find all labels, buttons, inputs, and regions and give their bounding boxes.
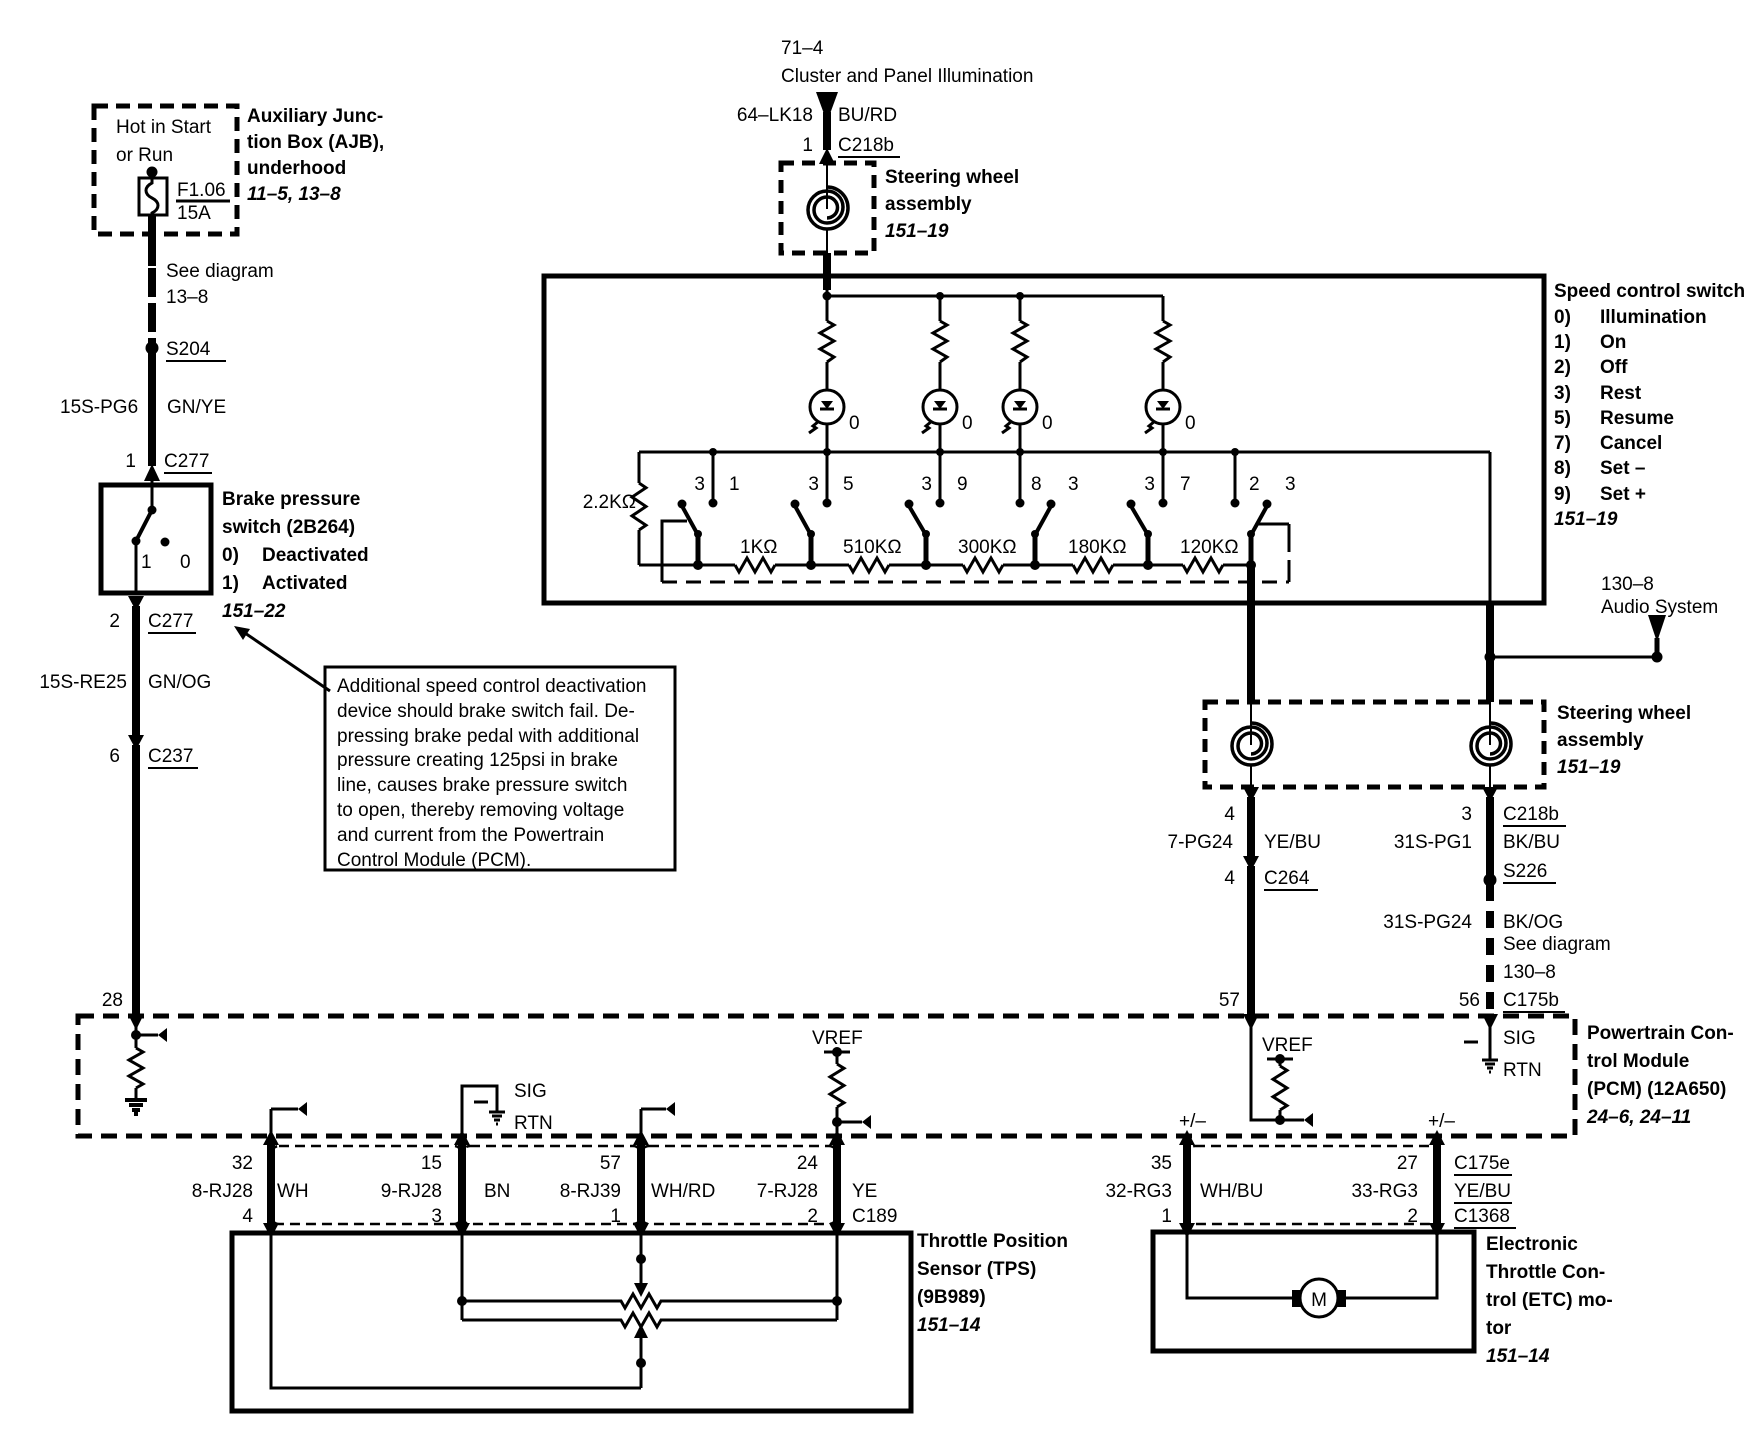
label 3 1 [694, 474, 739, 495]
svg-text:300KΩ: 300KΩ [958, 537, 1017, 558]
svg-text:3: 3 [1461, 804, 1472, 825]
wire switch common rail top [639, 451, 1490, 454]
svg-text:1: 1 [610, 1206, 621, 1227]
wire through clockspring left [1250, 702, 1252, 745]
node contact 0 [161, 538, 170, 547]
switch SW1 On stub pin 1 [709, 452, 718, 508]
pin bar 57/1 [633, 1130, 649, 1238]
wire 64-LK18 BU/RD [823, 112, 831, 150]
svg-text:SIG: SIG [514, 1081, 547, 1102]
switch SW6 Off stub pin 2 [1231, 452, 1240, 508]
svg-text:56: 56 [1459, 990, 1480, 1011]
label YE C189 [852, 1181, 897, 1227]
svg-text:Resume: Resume [1600, 408, 1674, 429]
svg-text:Control Module (PCM).: Control Module (PCM). [337, 850, 531, 871]
label Auxiliary Junction Box (AJB) underhood 11-5, 13-8 [247, 106, 384, 205]
wire TPS wiper lower [634, 1324, 648, 1388]
svg-text:BK/OG: BK/OG [1503, 912, 1563, 933]
svg-text:Speed control switch: Speed control switch [1554, 281, 1745, 302]
svg-text:S226: S226 [1503, 861, 1547, 882]
connector arrow C264 pin 4 [1243, 856, 1259, 871]
svg-text:Cluster and Panel Illumination: Cluster and Panel Illumination [781, 66, 1033, 87]
svg-text:pressing brake pedal with addi: pressing brake pedal with additional [337, 726, 639, 747]
svg-text:1: 1 [1161, 1206, 1172, 1227]
svg-text:3: 3 [1285, 474, 1296, 495]
svg-text:2): 2) [1554, 357, 1571, 378]
svg-text:WH/BU: WH/BU [1200, 1181, 1263, 1202]
svg-text:M: M [1311, 1290, 1327, 1311]
svg-text:device should brake switch fai: device should brake switch fail. De- [337, 701, 635, 722]
label Throttle Position Sensor (TPS) (9B989) 151-14 [917, 1231, 1068, 1336]
label positions 1 0 [141, 552, 191, 573]
svg-text:3: 3 [921, 474, 932, 495]
svg-text:Deactivated: Deactivated [262, 545, 369, 566]
svg-text:C264: C264 [1264, 868, 1310, 889]
ground SIG RTN right [1482, 1060, 1498, 1072]
svg-text:Activated: Activated [262, 573, 348, 594]
label Speed control switch legend [1554, 281, 1745, 530]
svg-text:13–8: 13–8 [166, 287, 208, 308]
connector arrow PCM pin 57 [1243, 1014, 1259, 1030]
label Steering wheel assembly 151-19 [885, 167, 1019, 242]
splice S204 [146, 342, 159, 355]
svg-text:assembly: assembly [1557, 730, 1644, 751]
svg-text:+/–: +/– [1179, 1111, 1206, 1132]
svg-text:3: 3 [808, 474, 819, 495]
svg-text:0: 0 [1042, 413, 1053, 434]
resistor TPS track upper [462, 1294, 837, 1308]
svg-text:71–4: 71–4 [781, 38, 824, 59]
svg-text:C1368: C1368 [1454, 1206, 1510, 1227]
resistor 300K [963, 558, 1003, 572]
wire lamp supply rail [827, 295, 1163, 298]
clockspring coil left [1232, 723, 1272, 765]
pin bar 24/2 [829, 1130, 845, 1238]
svg-text:2: 2 [1249, 474, 1260, 495]
switch SW5 Cancel stub pin 7 [1159, 452, 1168, 508]
lamp branch 3 wire [1019, 296, 1022, 321]
switch SW4 blade [1031, 500, 1056, 566]
label C175e YE/BU C1368 [1454, 1153, 1516, 1228]
electronic throttle control ETC motor box [1153, 1232, 1474, 1351]
svg-text:3: 3 [431, 1206, 442, 1227]
wire to audio system [1490, 656, 1657, 659]
svg-text:27: 27 [1397, 1153, 1418, 1174]
svg-text:120KΩ: 120KΩ [1180, 537, 1239, 558]
resistor 2.2K [632, 483, 646, 530]
svg-text:8): 8) [1554, 458, 1571, 479]
powertrain control module PCM dashed box [78, 1016, 1575, 1136]
svg-text:trol Module: trol Module [1587, 1051, 1689, 1072]
svg-text:1: 1 [802, 135, 813, 156]
steering wheel assembly top dashed box [781, 163, 874, 253]
svg-text:C277: C277 [164, 451, 209, 472]
svg-text:(PCM) (12A650): (PCM) (12A650) [1587, 1079, 1726, 1100]
svg-text:VREF: VREF [1262, 1035, 1313, 1056]
svg-text:S204: S204 [166, 339, 211, 360]
svg-text:15S-PG6: 15S-PG6 [60, 397, 138, 418]
pin bar 32/4 [263, 1130, 279, 1238]
svg-text:15S-RE25: 15S-RE25 [39, 672, 127, 693]
svg-text:Set +: Set + [1600, 484, 1646, 505]
resistor PCM pin28 pullup [129, 1048, 143, 1088]
svg-text:switch (2B264): switch (2B264) [222, 517, 355, 538]
svg-text:7-PG24: 7-PG24 [1168, 832, 1234, 853]
svg-text:7): 7) [1554, 433, 1571, 454]
svg-text:57: 57 [600, 1153, 621, 1174]
svg-text:underhood: underhood [247, 158, 346, 179]
wire VREF branch stub [837, 1115, 871, 1129]
svg-text:Illumination: Illumination [1600, 307, 1707, 328]
label 2 3 [1249, 474, 1296, 495]
svg-text:180KΩ: 180KΩ [1068, 537, 1127, 558]
label pin 6 C237 [109, 746, 198, 768]
svg-text:Powertrain Con-: Powertrain Con- [1587, 1023, 1734, 1044]
label See diagram 130-8 [1503, 934, 1611, 983]
node contact 1 [132, 537, 141, 546]
node audio tap [1485, 652, 1496, 663]
resistor TPS track lower [462, 1313, 837, 1327]
ground PCM pin28 [125, 1100, 147, 1114]
svg-text:4: 4 [1224, 804, 1235, 825]
svg-text:1: 1 [729, 474, 740, 495]
lamp 0 illumination 3 [1002, 390, 1037, 433]
wire switch entry [151, 481, 154, 510]
mechanical link left bracket [662, 521, 687, 582]
wire lamp 3 to switch rail [1019, 424, 1022, 452]
svg-text:1: 1 [125, 451, 136, 472]
connector C189 dashed box WH/RD [641, 1146, 837, 1224]
svg-text:3: 3 [1144, 474, 1155, 495]
fuse F1.06 15A [139, 172, 167, 218]
label Steering wheel assembly lower [1557, 703, 1691, 778]
wire 7-PG24 to PCM pin 57 [1247, 866, 1255, 1016]
svg-text:Auxiliary Junc-: Auxiliary Junc- [247, 106, 383, 127]
svg-text:WH/RD: WH/RD [651, 1181, 715, 1202]
label 71-4 Cluster and Panel Illumination [781, 38, 1033, 87]
svg-text:line, causes brake pressure sw: line, causes brake pressure switch [337, 775, 627, 796]
lamp 0 illumination 2 [922, 390, 957, 433]
label pin24 7-RJ28 2 [757, 1153, 819, 1227]
svg-text:Additional speed control deact: Additional speed control deactivation [337, 676, 646, 697]
svg-text:trol (ETC) mo-: trol (ETC) mo- [1486, 1290, 1613, 1311]
wire through clockspring [826, 163, 828, 209]
svg-text:Off: Off [1600, 357, 1628, 378]
svg-text:F1.06: F1.06 [177, 180, 226, 201]
svg-text:151–14: 151–14 [917, 1315, 981, 1336]
label SIG RTN left [514, 1081, 553, 1134]
wire 15S-RE25 GN/OG [132, 606, 140, 736]
label pin 1 C218b [802, 135, 900, 157]
wire switch output pin3 to steering wheel [1486, 603, 1494, 702]
svg-text:Brake pressure: Brake pressure [222, 489, 360, 510]
wire entry stub inside box [826, 288, 829, 296]
connector C1368 dashed box WH/BU [1187, 1146, 1437, 1224]
svg-text:15A: 15A [177, 203, 211, 224]
svg-text:5: 5 [843, 474, 854, 495]
svg-text:2.2KΩ: 2.2KΩ [583, 492, 636, 513]
connector arrow C218b pin 4 [1243, 787, 1259, 802]
label pin 56 C175b [1459, 990, 1565, 1012]
svg-text:130–8: 130–8 [1503, 962, 1556, 983]
svg-text:32-RG3: 32-RG3 [1105, 1181, 1172, 1202]
svg-text:151–19: 151–19 [1554, 509, 1618, 530]
svg-text:4: 4 [1224, 868, 1235, 889]
wire resistor to lamp 1 [826, 362, 829, 391]
resistor lamp 4 [1156, 321, 1170, 362]
node entry junction [823, 292, 832, 301]
svg-text:YE/BU: YE/BU [1454, 1181, 1511, 1202]
switch SW3 Set+ stub pin 9 [936, 452, 945, 508]
connector arrow C218b pin 1 [819, 148, 835, 164]
wire switch output pin2 to steering wheel [1247, 565, 1255, 702]
label minus right [1464, 1041, 1478, 1044]
svg-text:See diagram: See diagram [1503, 934, 1611, 955]
node audio end [1652, 652, 1663, 663]
svg-text:to open, thereby removing volt: to open, thereby removing voltage [337, 800, 624, 821]
svg-text:5): 5) [1554, 408, 1571, 429]
switch SW1 blade [678, 500, 703, 566]
svg-text:+/–: +/– [1428, 1111, 1455, 1132]
switch SW3 blade [905, 500, 931, 566]
lamp branch 2 wire [939, 296, 942, 321]
svg-text:31S-PG24: 31S-PG24 [1383, 912, 1472, 933]
node fuse top dot [147, 167, 158, 178]
svg-text:32: 32 [232, 1153, 253, 1174]
svg-text:3): 3) [1554, 383, 1571, 404]
svg-text:15: 15 [421, 1153, 442, 1174]
wire lamp 4 to switch rail [1162, 424, 1165, 452]
switch SW2 Resume stub pin 5 [823, 452, 832, 508]
pin bar 15/3 [454, 1130, 470, 1238]
wire PCM pin15 SIG RTN [462, 1086, 497, 1136]
note box leader arrow [234, 626, 330, 691]
svg-text:C277: C277 [148, 611, 193, 632]
wire through clockspring right [1489, 702, 1491, 745]
svg-text:BK/BU: BK/BU [1503, 832, 1560, 853]
wire ETC motor right lead [1344, 1232, 1437, 1298]
svg-text:See diagram: See diagram [166, 261, 274, 282]
label pin35 32-RG3 1 [1105, 1153, 1172, 1227]
label 3 9 [921, 474, 967, 495]
svg-text:0): 0) [1554, 307, 1571, 328]
node rail taps [936, 292, 1024, 300]
wire resistor chain rail [639, 564, 1251, 567]
svg-text:64–LK18: 64–LK18 [737, 105, 813, 126]
motor M ETC [1292, 1279, 1346, 1317]
connector arrow C237 pin 6 [128, 735, 144, 750]
lamp 0 illumination 4 [1145, 390, 1180, 433]
svg-text:Cancel: Cancel [1600, 433, 1662, 454]
svg-text:Steering wheel: Steering wheel [1557, 703, 1691, 724]
svg-text:1): 1) [222, 573, 239, 594]
connector arrow C277 pin 1 [144, 464, 160, 481]
lamp branch 4 wire [1162, 296, 1165, 321]
label pin 4 C264 [1224, 868, 1318, 890]
svg-text:tor: tor [1486, 1318, 1512, 1339]
wire PCM pin32 stub [271, 1102, 307, 1136]
svg-text:BU/RD: BU/RD [838, 105, 897, 126]
svg-text:151–19: 151–19 [1557, 757, 1621, 778]
svg-text:1): 1) [1554, 332, 1571, 353]
node chain junction dots [693, 560, 1256, 570]
label pin 3 C218b [1461, 804, 1566, 826]
node PCM pin28 junction [131, 1016, 141, 1048]
wire inner left edge lower [638, 530, 641, 565]
wire ETC motor left lead [1187, 1232, 1294, 1298]
resistor lamp 1 [820, 321, 834, 362]
svg-text:assembly: assembly [885, 194, 972, 215]
svg-text:2: 2 [1407, 1206, 1418, 1227]
svg-text:28: 28 [102, 990, 123, 1011]
svg-text:9: 9 [957, 474, 968, 495]
label pin15 9-RJ28 3 [381, 1153, 442, 1227]
wire TPS pin2 [836, 1233, 839, 1320]
svg-text:pressure creating 125psi in br: pressure creating 125psi in brake [337, 750, 618, 771]
clockspring coil top [808, 187, 848, 229]
wire lamp 1 to switch rail [826, 424, 829, 452]
switch SW4 Set- stub pin 8 [1016, 452, 1025, 508]
brake pressure switch box 2B264 [101, 485, 211, 593]
label SIG RTN right [1503, 1028, 1542, 1081]
wire steering wheel to switch box [823, 253, 831, 290]
svg-text:Sensor (TPS): Sensor (TPS) [917, 1259, 1036, 1280]
pin bar 27/2 [1429, 1130, 1445, 1238]
connector C189 dashed box WH [271, 1146, 462, 1224]
wire PCM pin57 stub [641, 1102, 675, 1136]
label pin 1 C277 [125, 451, 212, 473]
svg-text:On: On [1600, 332, 1626, 353]
svg-text:7: 7 [1180, 474, 1191, 495]
svg-text:7-RJ28: 7-RJ28 [757, 1181, 818, 1202]
svg-text:and current from the Powertrai: and current from the Powertrain [337, 825, 604, 846]
resistor VREF right [1273, 1059, 1287, 1120]
splice S226 [1484, 874, 1497, 887]
svg-text:Throttle Position: Throttle Position [917, 1231, 1068, 1252]
throttle position sensor TPS box [232, 1233, 911, 1411]
svg-text:RTN: RTN [1503, 1060, 1542, 1081]
offpage arrow cluster illumination [816, 92, 838, 122]
switch SW6 blade [1247, 500, 1272, 566]
svg-text:GN/YE: GN/YE [167, 397, 226, 418]
wire resistor to ground [135, 1088, 138, 1099]
svg-text:0: 0 [180, 552, 191, 573]
svg-text:C237: C237 [148, 746, 193, 767]
svg-text:57: 57 [1219, 990, 1240, 1011]
svg-text:tion Box (AJB),: tion Box (AJB), [247, 132, 384, 153]
mechanical link right bracket [1258, 524, 1289, 582]
svg-text:9-RJ28: 9-RJ28 [381, 1181, 442, 1202]
node VREF junction right [1275, 1115, 1285, 1125]
svg-text:31S-PG1: 31S-PG1 [1394, 832, 1472, 853]
svg-text:C175b: C175b [1503, 990, 1559, 1011]
svg-text:510KΩ: 510KΩ [843, 537, 902, 558]
mechanical link dashed rail [662, 581, 1289, 584]
svg-text:Audio System: Audio System [1601, 597, 1718, 618]
label 8 3 [1031, 474, 1079, 495]
svg-text:9): 9) [1554, 484, 1571, 505]
label Brake pressure switch (2B264) [222, 489, 369, 622]
connector arrow PCM pin 56 [1482, 1014, 1498, 1030]
svg-text:GN/OG: GN/OG [148, 672, 211, 693]
wire 7-PG24 YE/BU upper [1247, 797, 1255, 857]
node TPS rail1 right [832, 1296, 842, 1306]
svg-text:8: 8 [1031, 474, 1042, 495]
wire PCM pin57 internal VREF [1251, 1016, 1304, 1120]
svg-text:3: 3 [1068, 474, 1079, 495]
svg-text:or Run: or Run [116, 145, 173, 166]
svg-text:C218b: C218b [1503, 804, 1559, 825]
resistor VREF left [830, 1052, 844, 1136]
svg-text:Rest: Rest [1600, 383, 1642, 404]
svg-text:Steering wheel: Steering wheel [885, 167, 1019, 188]
svg-text:SIG: SIG [1503, 1028, 1536, 1049]
ground SIG RTN left [489, 1112, 505, 1124]
svg-text:BN: BN [484, 1181, 510, 1202]
node TPS rail1 left [457, 1296, 467, 1306]
wire pin28 branch stub [136, 1028, 167, 1042]
wire VREF branch arrow right [1304, 1113, 1313, 1127]
node VREF tap right [1267, 1054, 1293, 1064]
wire inner left edge upper [638, 452, 641, 483]
wire lamp 2 to switch rail [939, 424, 942, 452]
resistor lamp 2 [933, 321, 947, 362]
connector C189 dashed box BN [462, 1146, 641, 1224]
label Electronic Throttle Control (ETC) motor 151-14 [1486, 1234, 1613, 1367]
svg-text:C189: C189 [852, 1206, 897, 1227]
svg-text:35: 35 [1151, 1153, 1172, 1174]
svg-text:11–5, 13–8: 11–5, 13–8 [247, 184, 341, 205]
label minus left [474, 1101, 488, 1104]
steering wheel assembly lower dashed box [1205, 702, 1544, 787]
svg-text:0): 0) [222, 545, 239, 566]
svg-text:2: 2 [807, 1206, 818, 1227]
resistor 120K [1183, 558, 1223, 572]
wire TPS pin1 wiper upper [634, 1233, 648, 1297]
junction box AJB dashed enclosure [94, 106, 237, 234]
svg-text:YE: YE [852, 1181, 877, 1202]
svg-text:8-RJ28: 8-RJ28 [192, 1181, 253, 1202]
svg-text:151–22: 151–22 [222, 601, 286, 622]
wire resistor to lamp 3 [1019, 362, 1022, 391]
note text additional speed control deactivation [337, 676, 646, 871]
wire 31S-PG1 BK/BU [1486, 797, 1494, 880]
wire contact 1 to box bottom [135, 541, 138, 593]
label S204 [166, 339, 226, 361]
label 130-8 Audio System [1601, 574, 1718, 618]
label S226 [1503, 861, 1556, 883]
svg-text:24–6, 24–11: 24–6, 24–11 [1586, 1107, 1691, 1128]
svg-text:Hot in Start: Hot in Start [116, 117, 212, 138]
label pin27 33-RG3 2 [1351, 1153, 1418, 1227]
svg-text:1KΩ: 1KΩ [740, 537, 777, 558]
svg-text:Throttle Con-: Throttle Con- [1486, 1262, 1605, 1283]
offpage arrow audio system [1648, 615, 1666, 653]
svg-text:6: 6 [109, 746, 120, 767]
svg-text:24: 24 [797, 1153, 819, 1174]
label Hot in Start or Run [116, 117, 212, 166]
switch blade brake pressure [136, 510, 152, 541]
connector arrow C218b pin 3 [1482, 787, 1498, 802]
svg-text:2: 2 [109, 611, 120, 632]
svg-text:130–8: 130–8 [1601, 574, 1654, 595]
wire see-diagram dashed segment [148, 268, 156, 344]
svg-text:C175e: C175e [1454, 1153, 1510, 1174]
label 3 5 [808, 474, 853, 495]
connector arrow PCM pin 28 [128, 1014, 144, 1030]
node switch pivot [148, 506, 157, 515]
wire 31S-PG24 BK/OG dashed [1486, 884, 1494, 1014]
